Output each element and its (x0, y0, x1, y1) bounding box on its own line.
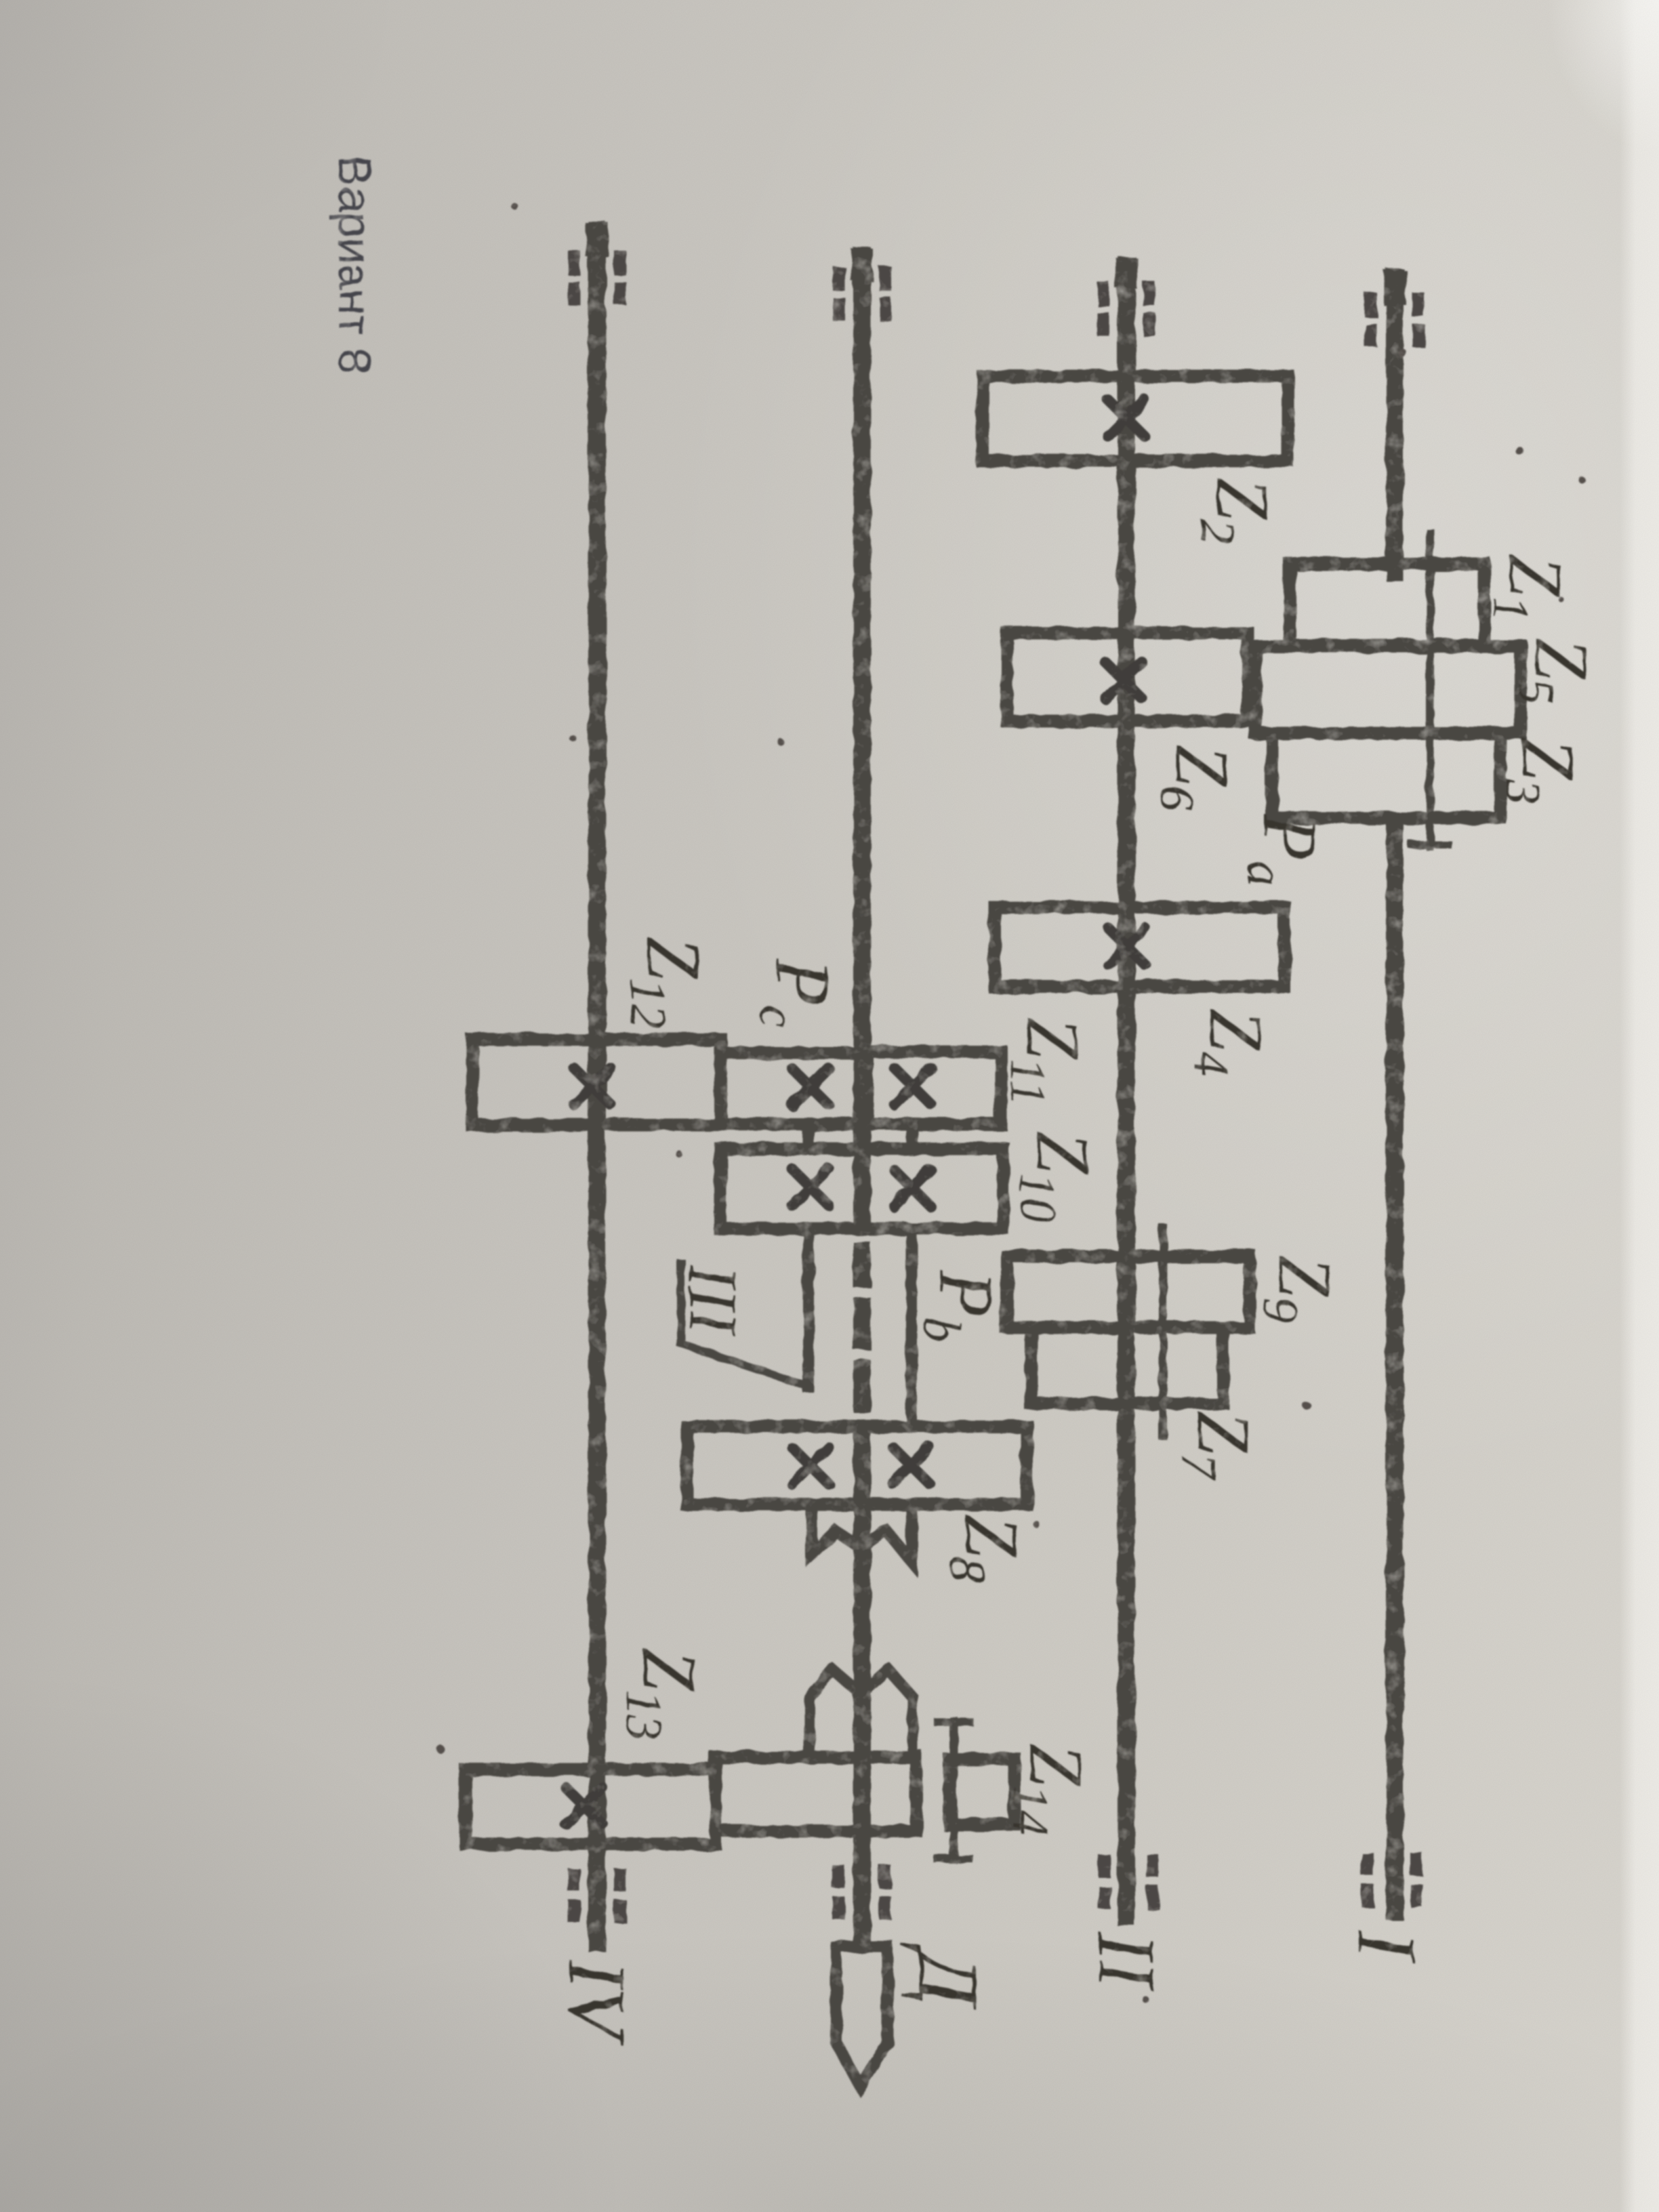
svg-text:III: III (674, 1264, 751, 1336)
svg-text:I: I (1341, 1931, 1433, 1963)
svg-text:Д: Д (900, 1944, 996, 2010)
svg-text:Вариант 8: Вариант 8 (329, 156, 380, 374)
svg-text:IV: IV (551, 1959, 642, 2047)
svg-text:II: II (1081, 1932, 1172, 1992)
